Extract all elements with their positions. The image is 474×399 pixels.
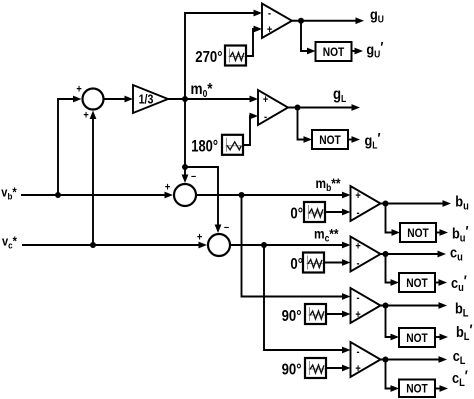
NOT gate 5	[399, 328, 435, 347]
svg-text:+: +	[355, 310, 360, 322]
svg-text:mb**: mb**	[316, 175, 342, 193]
node label m_0*	[191, 81, 213, 99]
svg-text:cL′: cL′	[452, 367, 468, 390]
svg-text:gL: gL	[333, 86, 347, 104]
svg-text:NOT: NOT	[407, 227, 429, 240]
comparator U5 for b_L	[351, 288, 381, 323]
wire NOT4 output to c_u'	[435, 279, 447, 286]
NOT gate 2	[312, 130, 348, 149]
wire U5 output to b_L	[381, 302, 448, 309]
output label g_L	[333, 86, 347, 104]
junction v_b tap	[55, 192, 61, 198]
carrier generator 0deg B	[290, 253, 324, 274]
svg-text:NOT: NOT	[406, 383, 428, 396]
svg-text:NOT: NOT	[319, 134, 341, 147]
carrier generator 90deg B	[282, 358, 326, 379]
carrier generator 180deg	[191, 135, 243, 156]
carrier generator 90deg A	[282, 304, 326, 325]
wire NOT3 output to b_u'	[436, 229, 448, 236]
wire b branch down to U5 inverting input	[242, 195, 351, 300]
svg-text:+: +	[165, 182, 170, 194]
svg-text:bu′: bu′	[452, 222, 469, 245]
svg-text:-: -	[356, 208, 359, 220]
svg-text:-: -	[356, 258, 359, 270]
svg-text:90°: 90°	[282, 362, 302, 379]
wire U4 node down to NOT4	[386, 254, 400, 286]
output label g_L'	[365, 129, 382, 151]
gain block 1/3	[133, 85, 168, 113]
node U1 output	[298, 18, 304, 24]
summing junction S1	[165, 171, 197, 206]
summing junction S0	[76, 84, 103, 122]
svg-text:-: -	[356, 293, 359, 305]
svg-text:270°: 270°	[195, 49, 222, 66]
junction b branch	[239, 192, 245, 198]
svg-text:gL′: gL′	[365, 129, 382, 151]
comparator U4 for c_u	[351, 237, 381, 272]
svg-text:vc*: vc*	[2, 233, 17, 250]
input label v_c*	[2, 233, 17, 250]
node U4 output	[383, 251, 389, 257]
carrier generator 0deg A	[290, 202, 325, 223]
wire m0 up to U1 inverting input	[185, 10, 262, 99]
wire NOT2 output to g_L'	[348, 136, 360, 143]
comparator U6 for c_L	[351, 342, 381, 377]
svg-text:+: +	[267, 25, 272, 37]
summing junction S2	[197, 222, 230, 256]
wire U5 node down to NOT5	[386, 306, 400, 341]
svg-text:gU′: gU′	[366, 38, 384, 60]
wire U6 node down to NOT6	[386, 360, 400, 392]
wire U1 output to g_U	[292, 17, 364, 24]
svg-text:cu: cu	[450, 244, 463, 264]
output label b_L'	[456, 321, 473, 344]
output label g_U	[370, 5, 384, 24]
svg-text:bu: bu	[455, 193, 468, 213]
wire U3 node down to NOT3	[386, 204, 401, 236]
svg-text:0°: 0°	[290, 206, 303, 223]
NOT gate 1	[316, 42, 352, 61]
NOT gate 6	[399, 380, 435, 398]
output label b_u	[455, 193, 468, 213]
wire v_c* input to summing node S2	[22, 242, 207, 249]
svg-text:–: –	[191, 171, 196, 183]
wire S2 output m_c to U4 noninverting input	[230, 242, 351, 249]
wire NOT6 output to c_L'	[435, 385, 448, 392]
NOT gate 4	[399, 273, 435, 292]
wire v_b tap up to summing node S0	[58, 96, 82, 195]
svg-text:cL: cL	[453, 347, 466, 367]
svg-text:90°: 90°	[282, 308, 302, 325]
wire m0 branch to S2 inverting input	[185, 167, 221, 233]
svg-text:-: -	[264, 112, 267, 124]
comparator U1 for g_U	[262, 4, 292, 39]
svg-text:180°: 180°	[191, 137, 218, 156]
wire U3 output to b_u	[381, 200, 452, 207]
wire gain output m0 to U2 noninverting input	[168, 96, 258, 103]
wire carrier 0B to U4 inverting input	[324, 259, 351, 266]
svg-text:bL′: bL′	[456, 321, 473, 344]
output label c_u'	[451, 271, 467, 294]
node U2 output	[295, 105, 301, 111]
svg-text:1/3: 1/3	[139, 93, 154, 107]
wire U2 node down to NOT2	[298, 108, 313, 143]
wire NOT1 output to g_U'	[352, 48, 364, 55]
wire m0 down to S1 inverting input	[182, 99, 189, 183]
svg-text:+: +	[76, 84, 81, 96]
wire S0 to gain block	[104, 96, 134, 103]
output label b_L	[455, 300, 468, 320]
svg-text:mc**: mc**	[314, 226, 339, 244]
wire U6 output to c_L	[381, 356, 448, 363]
svg-text:m0*: m0*	[191, 81, 213, 99]
NOT gate 3	[400, 223, 436, 242]
output label b_u'	[452, 222, 469, 245]
svg-text:NOT: NOT	[323, 46, 345, 59]
output label c_L	[453, 347, 466, 367]
svg-text:+: +	[263, 95, 268, 107]
svg-text:+: +	[355, 191, 360, 203]
svg-text:cu′: cu′	[451, 271, 467, 294]
svg-text:+: +	[355, 364, 360, 376]
svg-text:NOT: NOT	[406, 332, 428, 345]
node label m_c**	[314, 226, 339, 244]
wire NOT5 output to b_L'	[435, 334, 448, 341]
comparator U2 for g_L	[258, 90, 288, 125]
wire carrier 180 to U2 inverting input	[242, 113, 258, 145]
input label v_b*	[1, 185, 17, 202]
wire U1 node down to NOT1	[301, 21, 316, 55]
output label c_u	[450, 244, 463, 264]
wire S1 output m_b to U3 noninverting input	[196, 192, 351, 199]
wire carrier 270 to U1 noninverting input	[246, 26, 262, 56]
node U3 output	[383, 201, 389, 207]
svg-text:+: +	[197, 232, 202, 244]
wire v_c tap up to summing node S0 bottom	[90, 111, 97, 246]
junction c branch	[261, 242, 267, 248]
carrier generator 270deg	[195, 46, 246, 67]
svg-text:0°: 0°	[290, 256, 303, 273]
svg-text:bL: bL	[455, 300, 468, 320]
output label c_L'	[452, 367, 468, 390]
svg-text:-: -	[268, 8, 271, 20]
wire carrier 0A to U3 inverting input	[325, 209, 351, 216]
output label g_U'	[366, 38, 384, 60]
node m0	[182, 96, 188, 102]
svg-text:gU: gU	[370, 5, 384, 24]
wire carrier 90B to U6 noninverting input	[326, 365, 351, 372]
node U5 output	[383, 303, 389, 309]
junction v_c tap	[90, 242, 96, 248]
junction m0 branch	[182, 164, 188, 170]
svg-text:-: -	[356, 347, 359, 359]
node U6 output	[383, 357, 389, 363]
wire carrier 90A to U5 noninverting input	[326, 311, 351, 318]
svg-text:NOT: NOT	[406, 277, 428, 290]
svg-text:vb*: vb*	[1, 185, 17, 202]
node label m_b**	[316, 175, 342, 193]
svg-text:+: +	[355, 241, 360, 253]
wire U2 output to g_L	[288, 104, 360, 111]
svg-text:–: –	[224, 222, 229, 234]
wire v_b* input to summing node S1	[21, 192, 173, 199]
svg-text:+: +	[83, 110, 88, 122]
wire U4 output to c_u	[381, 251, 447, 258]
comparator U3 for b_u	[351, 186, 381, 221]
wire c branch down to U6 inverting input	[264, 245, 351, 353]
